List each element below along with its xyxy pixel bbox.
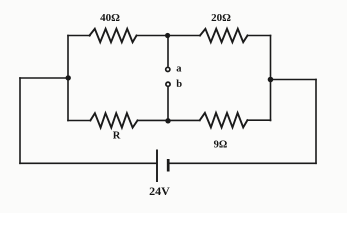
wire: left horizontal link xyxy=(20,77,68,79)
wire: bottom branch left segment xyxy=(68,120,90,122)
junction: bottom middle node xyxy=(165,118,170,123)
wire: top rail right segment xyxy=(248,35,271,37)
junction: top middle node xyxy=(165,33,170,38)
wire: left inner vertical branch xyxy=(67,36,69,121)
wire: right outer vertical xyxy=(315,80,317,164)
wire: bottom rail left of battery xyxy=(20,162,157,164)
wire: left outer vertical xyxy=(19,78,21,163)
svg-text:9Ω: 9Ω xyxy=(214,139,228,150)
svg-text:a: a xyxy=(176,64,182,75)
svg-text:20Ω: 20Ω xyxy=(211,12,231,24)
resistor 9Ω zigzag xyxy=(200,113,248,128)
wire: bottom rail right of battery xyxy=(170,162,316,164)
wire: middle branch upper (to terminal a) xyxy=(167,36,169,67)
resistor R zigzag xyxy=(90,113,137,127)
svg-text:40Ω: 40Ω xyxy=(100,12,120,24)
wire: right horizontal link xyxy=(271,79,317,81)
wire: middle branch lower (from terminal b) xyxy=(167,88,169,121)
wire: right inner vertical branch xyxy=(270,36,272,121)
svg-text:b: b xyxy=(176,79,182,90)
svg-text:24V: 24V xyxy=(149,184,170,198)
wire: bottom branch right segment xyxy=(247,119,270,121)
resistor 40Ω zigzag xyxy=(90,29,137,42)
node a: open terminal circle xyxy=(166,67,170,71)
junction: left node xyxy=(66,75,71,80)
wire: bottom branch middle segment xyxy=(138,119,200,121)
svg-text:R: R xyxy=(113,130,121,141)
battery 24V: long positive plate xyxy=(156,150,158,183)
battery 24V: short negative plate xyxy=(167,159,170,172)
node b: open terminal circle xyxy=(166,82,170,86)
wire: top rail left segment xyxy=(68,35,90,37)
resistor 20Ω zigzag xyxy=(200,29,248,42)
wire: top rail middle segment xyxy=(137,35,201,37)
junction: right node xyxy=(268,77,274,83)
